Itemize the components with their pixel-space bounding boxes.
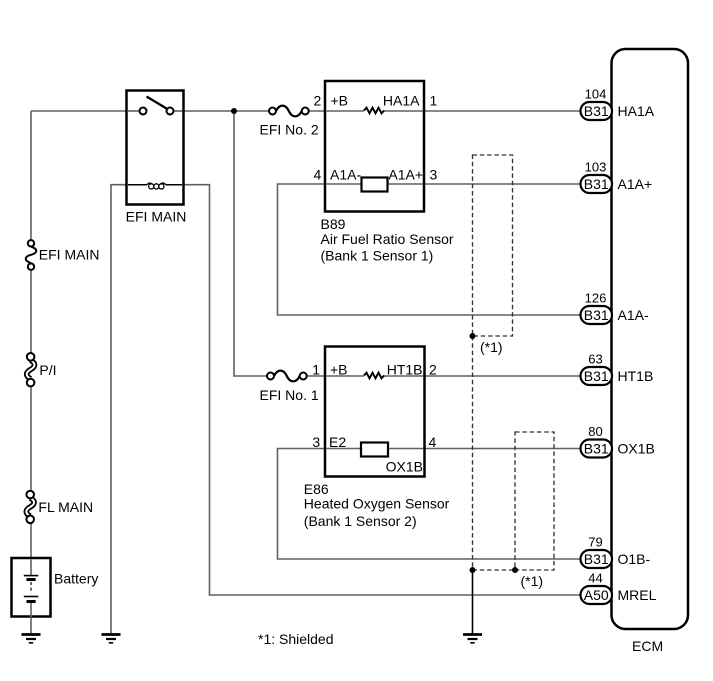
svg-text:EFI MAIN: EFI MAIN: [39, 247, 100, 263]
svg-text:3: 3: [430, 167, 438, 183]
svg-text:ECM: ECM: [632, 638, 663, 654]
svg-text:B31: B31: [584, 103, 609, 119]
svg-text:(Bank 1 Sensor 2): (Bank 1 Sensor 2): [304, 513, 417, 529]
svg-text:HA1A: HA1A: [618, 103, 655, 119]
svg-text:126: 126: [585, 291, 607, 306]
svg-text:4: 4: [314, 167, 322, 183]
svg-text:A1A+: A1A+: [388, 167, 423, 183]
svg-text:A1A-: A1A-: [618, 307, 649, 323]
svg-text:FL MAIN: FL MAIN: [38, 499, 93, 515]
svg-text:B31: B31: [584, 551, 609, 567]
svg-text:103: 103: [585, 160, 607, 175]
svg-text:104: 104: [585, 87, 607, 102]
svg-text:OX1B: OX1B: [386, 459, 423, 475]
svg-text:44: 44: [588, 571, 602, 586]
svg-text:P/I: P/I: [39, 362, 56, 378]
svg-text:63: 63: [588, 352, 602, 367]
svg-text:EFI No. 2: EFI No. 2: [260, 122, 319, 138]
svg-text:B31: B31: [584, 176, 609, 192]
svg-text:80: 80: [588, 424, 602, 439]
svg-text:B31: B31: [584, 307, 609, 323]
svg-text:EFI MAIN: EFI MAIN: [126, 209, 187, 225]
svg-text:HT1B: HT1B: [618, 368, 654, 384]
svg-text:MREL: MREL: [618, 587, 657, 603]
svg-text:A50: A50: [584, 587, 609, 603]
svg-text:+B: +B: [330, 362, 348, 378]
svg-text:EFI No. 1: EFI No. 1: [260, 387, 319, 403]
svg-text:1: 1: [430, 93, 438, 109]
svg-text:*1: Shielded: *1: Shielded: [258, 631, 334, 647]
svg-text:HT1B: HT1B: [387, 362, 423, 378]
svg-text:O1B-: O1B-: [618, 551, 651, 567]
svg-text:Air Fuel Ratio Sensor: Air Fuel Ratio Sensor: [321, 231, 454, 247]
svg-text:1: 1: [312, 362, 320, 378]
svg-text:HA1A: HA1A: [383, 93, 420, 109]
svg-text:4: 4: [429, 434, 437, 450]
svg-text:2: 2: [314, 93, 322, 109]
svg-text:(*1): (*1): [480, 339, 503, 355]
svg-text:Heated Oxygen Sensor: Heated Oxygen Sensor: [304, 496, 450, 512]
svg-text:A1A-: A1A-: [330, 167, 361, 183]
svg-text:(*1): (*1): [521, 573, 544, 589]
svg-text:79: 79: [588, 535, 602, 550]
svg-text:3: 3: [312, 434, 320, 450]
svg-text:A1A+: A1A+: [618, 176, 653, 192]
svg-text:(Bank 1 Sensor 1): (Bank 1 Sensor 1): [321, 248, 434, 264]
svg-text:B31: B31: [584, 368, 609, 384]
svg-text:B89: B89: [321, 216, 346, 232]
svg-text:2: 2: [429, 362, 437, 378]
svg-text:+B: +B: [331, 93, 349, 109]
svg-text:E2: E2: [329, 434, 346, 450]
svg-text:B31: B31: [584, 441, 609, 457]
svg-text:Battery: Battery: [54, 571, 98, 587]
svg-text:OX1B: OX1B: [618, 441, 655, 457]
